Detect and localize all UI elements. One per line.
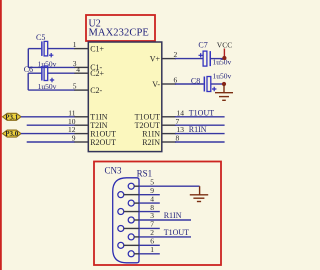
port P3.1 flag [3, 113, 22, 121]
wire P3.0 to pin 12 [21, 133, 75, 135]
capacitor C5 polarity plus [49, 53, 53, 57]
svg-text:9: 9 [72, 134, 76, 143]
sheet background [0, 0, 242, 270]
connector pin circle 9 [118, 192, 124, 198]
junction dot [222, 82, 226, 86]
wire P3.1 to pin 11 [21, 116, 75, 118]
wire pin 8 [139, 211, 160, 213]
svg-text:1u50v: 1u50v [213, 57, 232, 66]
pin 6 stub (V-) [162, 83, 176, 85]
svg-text:1: 1 [150, 245, 154, 254]
pin 5 link to connector edge [134, 185, 139, 187]
wire pin4 to C6 right plate [48, 72, 75, 74]
capacitor C7 plates [203, 51, 211, 66]
svg-text:C7: C7 [198, 40, 207, 49]
svg-text:R1IN: R1IN [189, 125, 207, 134]
ground symbol (top) [215, 84, 233, 100]
pin 9 stub (R2OUT) [74, 141, 88, 143]
capacitor C5 plates [41, 41, 48, 56]
wire left corner to pin 3 [28, 66, 74, 68]
svg-text:8: 8 [176, 134, 180, 143]
pin 3 stub (C1-) [74, 66, 88, 68]
svg-text:MAX232CPE: MAX232CPE [89, 28, 149, 39]
wire vertical C6 loop [27, 73, 29, 90]
svg-text:R2IN: R2IN [142, 138, 160, 147]
pin 8 link to connector edge [124, 211, 139, 213]
pin 8 stub (R2IN) [162, 141, 176, 143]
svg-text:V-: V- [152, 80, 160, 89]
svg-text:P3.0: P3.0 [5, 130, 19, 138]
port P3.0 flag [3, 130, 22, 138]
pin 9 link to connector edge [124, 194, 139, 196]
IC U2 MAX232CPE body [88, 42, 162, 152]
svg-text:C1+: C1+ [90, 44, 104, 53]
svg-text:1u50v: 1u50v [213, 71, 232, 80]
wire left corner to pin 5 [28, 89, 74, 91]
svg-text:2: 2 [174, 50, 178, 59]
connector pin circle 4 [128, 200, 134, 206]
pin 1 stub (C1+) [74, 48, 88, 50]
wire pin 4 [139, 202, 160, 204]
connector pin circle 2 [128, 234, 134, 240]
wire pin6 to C8 [175, 83, 204, 85]
wire pin2 to C7 [175, 58, 203, 60]
wire pin8 to right [175, 141, 225, 143]
svg-text:1u50v: 1u50v [38, 82, 57, 91]
wire C7 to VCC [211, 58, 225, 60]
svg-text:C6: C6 [24, 65, 33, 74]
wire pin 9 [139, 194, 160, 196]
connector pin circle 5 [128, 183, 134, 189]
pin 4 link to connector edge [134, 202, 139, 204]
connector CN3 DB9 outline [113, 178, 139, 263]
wire pin 7 [139, 227, 160, 229]
pin 6 link to connector edge [124, 244, 139, 246]
svg-text:T1OUT: T1OUT [164, 228, 189, 237]
svg-text:R2OUT: R2OUT [90, 138, 116, 147]
wire pin14 to right with net label T1OUT [175, 116, 225, 118]
connector pin circle 6 [118, 242, 124, 248]
pin 3 link to connector edge [134, 219, 139, 221]
wire pin 1 [139, 253, 160, 255]
pin 11 stub (T1IN) [74, 116, 88, 118]
wire C5 left plate to left corner [28, 48, 41, 50]
svg-text:CN3: CN3 [105, 166, 123, 176]
pin 2 stub (V+) [162, 58, 176, 60]
connector pin circle 3 [128, 217, 134, 223]
capacitor C8 polarity plus [212, 87, 216, 91]
wire on pin 10 [27, 124, 75, 126]
capacitor C8 plates [204, 77, 211, 92]
wire pin 6 [139, 244, 160, 246]
svg-text:VCC: VCC [217, 41, 232, 50]
capacitor C6 plates [41, 66, 48, 81]
wire pin 5 [139, 185, 200, 187]
red annotation box around CN3 connector [94, 162, 221, 266]
wire pin 3 [139, 219, 191, 221]
svg-text:V+: V+ [150, 54, 161, 63]
wire C8 to ground [211, 83, 224, 85]
pin 7 link to connector edge [124, 227, 139, 229]
svg-text:C5: C5 [36, 33, 45, 42]
wire C6 left plate to left corner [28, 72, 41, 74]
svg-text:R1IN: R1IN [164, 211, 182, 220]
connector pin circle 8 [118, 209, 124, 215]
connector pin circle 7 [118, 225, 124, 231]
svg-text:T1OUT: T1OUT [189, 108, 214, 117]
svg-text:C2+: C2+ [90, 69, 104, 78]
ground symbol (bottom) [190, 186, 208, 201]
capacitor C7 polarity plus [199, 53, 203, 57]
svg-text:C8: C8 [191, 76, 200, 85]
wire vertical C5 loop [27, 49, 29, 68]
pin 5 stub (C2-) [74, 89, 88, 91]
wire pin13 to right with net label R1IN [175, 133, 225, 135]
pin 12 stub (R1OUT) [74, 133, 88, 135]
connector pin circle 1 [128, 251, 134, 257]
svg-text:6: 6 [174, 76, 178, 85]
wire pin7 to right [175, 124, 225, 126]
svg-text:P3.1: P3.1 [5, 113, 19, 121]
wire pin1 to C5 right plate [48, 48, 75, 50]
wire pin 2 [139, 236, 191, 238]
pin 14 stub (T1OUT) [162, 116, 176, 118]
capacitor C6 polarity plus [50, 78, 54, 82]
wire on pin 9 [27, 141, 75, 143]
svg-text:5: 5 [73, 82, 77, 91]
pin 7 stub (T2OUT) [162, 124, 176, 126]
power port VCC [217, 41, 232, 61]
pin 10 stub (T2IN) [74, 124, 88, 126]
pin 2 link to connector edge [134, 236, 139, 238]
svg-text:C2-: C2- [90, 86, 102, 95]
sheet border line (left edge) [0, 0, 2, 270]
svg-text:4: 4 [76, 65, 80, 74]
pin 1 link to connector edge [134, 253, 139, 255]
red annotation box around U2 designator [86, 15, 155, 41]
pin 4 stub (C2+) [74, 72, 88, 74]
pin 13 stub (R1IN) [162, 133, 176, 135]
svg-text:1: 1 [73, 40, 77, 49]
